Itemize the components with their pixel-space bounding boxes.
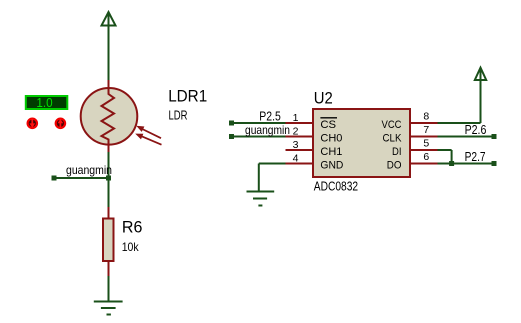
svg-text:1: 1	[293, 112, 299, 124]
pin: R6 top lead	[108, 207, 110, 219]
svg-text:P2.6: P2.6	[465, 123, 487, 137]
svg-text:ADC0832: ADC0832	[314, 180, 358, 194]
svg-text:3: 3	[293, 139, 299, 151]
wire end square P2.5	[229, 121, 234, 126]
pin 5 stub	[410, 149, 438, 151]
svg-text:CH0: CH0	[320, 133, 342, 145]
pin 6 stub	[410, 163, 438, 165]
wire end square P2.6	[492, 134, 497, 139]
LDR light arrow lower	[137, 135, 161, 145]
pin 3 stub	[286, 149, 314, 151]
pin: LDR bottom lead	[108, 145, 110, 153]
pin 1 stub	[286, 122, 314, 124]
wire: pin 5 down to pin 6 net	[438, 149, 452, 151]
wire end square	[52, 176, 57, 181]
wire: guangmin branch	[54, 177, 109, 179]
wire: P2.5 to pin 1	[232, 122, 286, 124]
svg-text:VCC: VCC	[382, 119, 402, 131]
svg-text:10k: 10k	[122, 240, 140, 254]
pin 2 stub	[286, 136, 314, 138]
svg-text:6: 6	[423, 151, 429, 163]
svg-text:8: 8	[423, 111, 429, 123]
svg-text:U2: U2	[314, 89, 333, 108]
svg-text:DI: DI	[392, 146, 402, 158]
resistor R6 body	[103, 219, 114, 262]
ground (bottom left)	[94, 302, 123, 315]
svg-text:7: 7	[423, 124, 429, 136]
wire: pin 7 to P2.6	[438, 136, 495, 138]
svg-text:CS: CS	[320, 119, 336, 131]
svg-text:guangmin: guangmin	[66, 163, 112, 177]
wire end square P2.7	[492, 161, 497, 166]
pin 4 stub	[286, 163, 314, 165]
svg-text:2: 2	[293, 126, 299, 138]
svg-text:CH1: CH1	[320, 146, 342, 158]
ground (under chip)	[247, 192, 275, 206]
svg-text:R6: R6	[122, 217, 142, 236]
wire: pin 6 to P2.7	[438, 163, 495, 165]
op-amp U2 ADC0832 body	[313, 109, 410, 177]
pin 7 stub	[410, 136, 438, 138]
wire: R6 to ground	[108, 276, 110, 302]
power terminal top-right	[475, 68, 486, 80]
pin: LDR top lead	[108, 80, 110, 89]
voltage display 1.0	[26, 96, 68, 110]
svg-text:CLK: CLK	[383, 133, 403, 145]
node junction DI/DO	[449, 161, 454, 166]
pin: R6 bottom lead	[108, 261, 110, 276]
wire	[480, 81, 482, 124]
svg-text:P2.7: P2.7	[465, 150, 486, 164]
svg-text:P2.5: P2.5	[259, 110, 281, 124]
LDR light arrow upper	[138, 127, 161, 138]
svg-text:4: 4	[293, 153, 299, 165]
svg-text:1.0: 1.0	[36, 96, 52, 110]
svg-text:5: 5	[423, 138, 429, 150]
LDR1 body	[81, 88, 138, 145]
power terminal top-left	[102, 12, 116, 26]
svg-text:guangmin: guangmin	[245, 123, 290, 137]
wire: power to LDR top	[108, 26, 110, 81]
svg-text:LDR1: LDR1	[168, 87, 207, 106]
wire: pin 8 to power	[438, 122, 481, 124]
svg-text:LDR: LDR	[169, 109, 188, 123]
LDR1 zigzag resistor element	[102, 89, 115, 145]
wire: LDR bottom to R6	[108, 152, 110, 207]
svg-text:GND: GND	[320, 160, 343, 172]
wire: pin 4 to ground	[259, 163, 286, 165]
node junction guangmin	[106, 176, 111, 181]
wire: guangmin to pin 2	[232, 136, 286, 138]
actuator button up	[56, 119, 65, 128]
actuator button down	[28, 119, 37, 128]
pin 8 stub	[410, 122, 438, 124]
wire	[258, 164, 260, 192]
wire	[451, 150, 453, 164]
svg-text:DO: DO	[387, 160, 402, 172]
wire end square guangmin	[229, 134, 234, 139]
